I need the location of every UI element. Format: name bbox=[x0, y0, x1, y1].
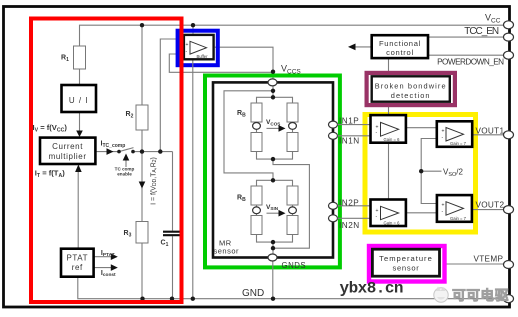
svg-text:Broken bondwire: Broken bondwire bbox=[375, 81, 447, 90]
svg-text:Gain = 7: Gain = 7 bbox=[450, 216, 467, 221]
svg-text:sensor: sensor bbox=[393, 263, 420, 272]
svg-text:Gain = 6: Gain = 6 bbox=[384, 220, 401, 225]
svg-text:sensor: sensor bbox=[214, 247, 240, 256]
svg-text:+: + bbox=[186, 42, 189, 48]
svg-text:ybx8.cn: ybx8.cn bbox=[340, 280, 404, 298]
svg-text:I = f(VDD,TA,R2): I = f(VDD,TA,R2) bbox=[150, 157, 158, 205]
svg-text:VOUT2: VOUT2 bbox=[476, 200, 505, 209]
svg-text:IN2N: IN2N bbox=[339, 221, 360, 230]
svg-text:POWERDOWN_EN: POWERDOWN_EN bbox=[437, 58, 504, 67]
svg-text:Temperature: Temperature bbox=[379, 254, 433, 263]
svg-text:Current: Current bbox=[52, 142, 83, 151]
svg-text:TCC_EN: TCC_EN bbox=[464, 26, 499, 37]
svg-text:IN2P: IN2P bbox=[339, 198, 359, 207]
svg-text:multiplier: multiplier bbox=[49, 152, 87, 161]
svg-text:control: control bbox=[386, 48, 414, 57]
svg-text:Gain = 7: Gain = 7 bbox=[450, 141, 467, 146]
svg-text:detection: detection bbox=[391, 91, 431, 100]
svg-text:Buffer: Buffer bbox=[196, 54, 208, 59]
svg-text:IN1P: IN1P bbox=[339, 117, 359, 126]
svg-text:GNDS: GNDS bbox=[282, 261, 307, 270]
svg-text:Gain = 6: Gain = 6 bbox=[384, 137, 401, 142]
svg-text:VTEMP: VTEMP bbox=[474, 255, 504, 264]
svg-text:enable: enable bbox=[117, 172, 132, 177]
svg-text:U / I: U / I bbox=[69, 96, 89, 105]
svg-text:Functional: Functional bbox=[379, 39, 421, 48]
svg-text:VOUT1: VOUT1 bbox=[476, 126, 505, 135]
svg-text:可可电驱: 可可电驱 bbox=[452, 287, 509, 303]
svg-text:ref: ref bbox=[72, 263, 83, 272]
svg-text:IN1N: IN1N bbox=[339, 137, 360, 146]
svg-text:PTAT: PTAT bbox=[66, 254, 88, 263]
svg-text:GND: GND bbox=[242, 288, 264, 299]
